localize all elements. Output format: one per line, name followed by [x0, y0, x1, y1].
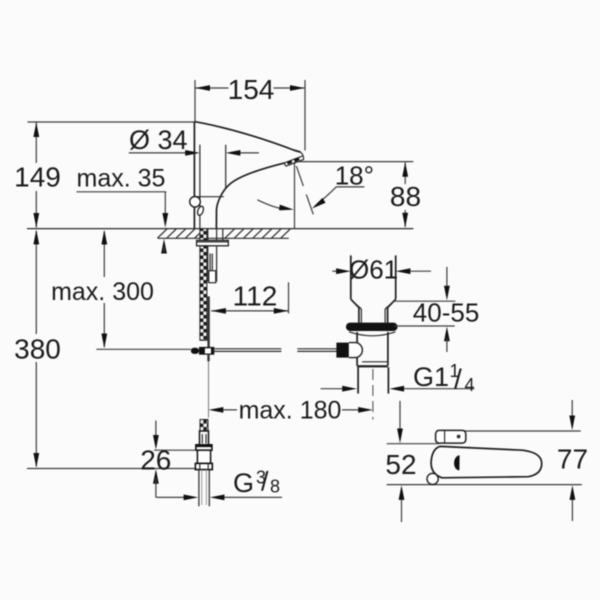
- faucet shank through counter: [200, 229, 223, 341]
- svg-text:26: 26: [140, 445, 171, 476]
- svg-text:Ø 34: Ø 34: [129, 125, 188, 155]
- svg-text:8: 8: [270, 477, 280, 497]
- drain waste assembly: cup: [351, 255, 396, 322]
- top view: small circle at spout end: [427, 473, 438, 484]
- top view: faucet body outline: [431, 446, 542, 477]
- top view: black port mark: [454, 455, 460, 470]
- svg-text:G: G: [233, 468, 254, 498]
- washer under flange: [349, 332, 396, 336]
- pop-up rod: [207, 296, 209, 347]
- dim 380: [14, 230, 196, 469]
- horizontal reference line left of cross: [96, 348, 191, 350]
- svg-text:112: 112: [233, 281, 278, 312]
- dim diameter 61: [332, 255, 431, 285]
- angle 18 deg annotation: [257, 161, 374, 218]
- svg-text:88: 88: [390, 181, 421, 212]
- svg-text:max. 35: max. 35: [77, 165, 166, 193]
- dim 88: [295, 162, 421, 228]
- svg-text:max. 300: max. 300: [51, 278, 154, 306]
- faucet body outline: [194, 122, 300, 229]
- dim 149: [14, 122, 194, 228]
- spout vertical reference line: [294, 162, 296, 228]
- drain tailpipe: [358, 367, 388, 419]
- svg-text:4: 4: [465, 375, 475, 395]
- svg-text:/: /: [261, 467, 269, 497]
- dim 26: [140, 421, 195, 498]
- dim max. 35 leader: [77, 165, 169, 254]
- label G1 1/4: [321, 361, 475, 395]
- horizontal actuating rod to drain: [214, 349, 336, 352]
- svg-text:154: 154: [228, 74, 275, 105]
- svg-text:/: /: [454, 364, 462, 395]
- dim 154 extension lines: [194, 80, 196, 122]
- svg-text:max. 180: max. 180: [239, 397, 342, 425]
- lever handle: [190, 197, 205, 217]
- dim G 3/8: [156, 467, 282, 501]
- dim diameter 34: [129, 125, 259, 229]
- top view: handle: [436, 430, 466, 443]
- svg-text:18°: 18°: [335, 161, 374, 191]
- drain side port: [336, 343, 362, 358]
- top view: dim 77: [462, 400, 588, 521]
- svg-text:52: 52: [385, 449, 416, 480]
- drain body: [357, 332, 388, 367]
- dim max. 180: [209, 397, 373, 425]
- aerator at spout tip: [285, 152, 304, 166]
- svg-text:40-55: 40-55: [413, 298, 480, 328]
- dim 154 dimension line: [195, 74, 305, 105]
- dim max. 300: [51, 230, 154, 348]
- dim 40-55: [394, 267, 479, 352]
- svg-text:G1: G1: [413, 362, 449, 392]
- drain flange (black): [346, 323, 398, 331]
- countertop: [27, 229, 413, 239]
- top view: dim 52: [385, 401, 438, 522]
- top view: bottom extension line: [387, 484, 582, 486]
- svg-text:77: 77: [557, 444, 588, 475]
- svg-text:Ø61: Ø61: [349, 255, 398, 285]
- thin rod below cross: [208, 361, 210, 417]
- svg-text:380: 380: [14, 334, 61, 365]
- bottom hose connector: [195, 420, 212, 507]
- cross fitting pivot: [191, 347, 214, 361]
- mounting nut under counter: [197, 240, 229, 245]
- svg-text:149: 149: [14, 162, 61, 193]
- dim 112: [211, 281, 288, 314]
- pop-up rod guide tube: [208, 246, 217, 283]
